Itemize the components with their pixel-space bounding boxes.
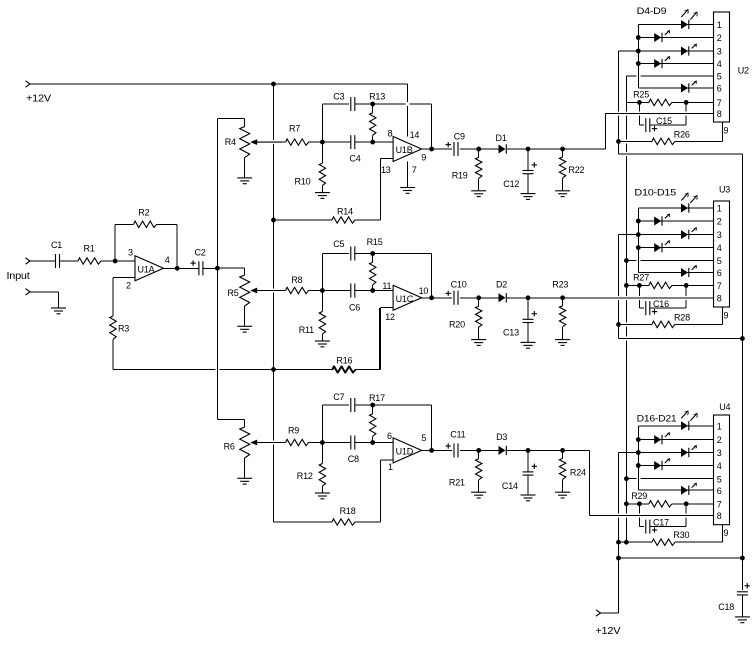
svg-text:R24: R24 xyxy=(570,467,586,477)
svg-text:R5: R5 xyxy=(227,288,238,298)
svg-text:C2: C2 xyxy=(195,248,206,258)
svg-text:8: 8 xyxy=(717,109,722,119)
svg-text:3: 3 xyxy=(128,248,133,258)
svg-text:5: 5 xyxy=(421,433,426,443)
svg-text:U1B: U1B xyxy=(396,145,413,155)
svg-text:R20: R20 xyxy=(449,320,465,330)
svg-text:6: 6 xyxy=(387,431,392,441)
svg-text:U4: U4 xyxy=(719,402,730,412)
svg-text:D10-D15: D10-D15 xyxy=(634,187,676,197)
svg-text:D2: D2 xyxy=(496,280,507,290)
svg-text:8: 8 xyxy=(717,293,722,303)
svg-text:11: 11 xyxy=(382,281,391,291)
svg-text:C15: C15 xyxy=(656,116,672,126)
svg-text:R25: R25 xyxy=(633,89,649,99)
svg-text:+12V: +12V xyxy=(26,94,52,105)
svg-text:6: 6 xyxy=(717,268,722,278)
svg-text:4: 4 xyxy=(165,255,170,265)
svg-text:14: 14 xyxy=(410,130,420,140)
svg-text:2: 2 xyxy=(126,281,131,291)
svg-text:C11: C11 xyxy=(450,430,465,440)
svg-text:R29: R29 xyxy=(631,491,647,501)
svg-text:+12V: +12V xyxy=(595,626,621,637)
svg-text:C8: C8 xyxy=(348,454,359,464)
svg-text:9: 9 xyxy=(724,126,729,136)
svg-text:U1D: U1D xyxy=(396,447,414,457)
svg-text:R19: R19 xyxy=(452,171,468,181)
svg-text:R7: R7 xyxy=(289,124,300,134)
svg-text:8: 8 xyxy=(388,129,393,139)
svg-text:R18: R18 xyxy=(340,506,356,516)
svg-text:R3: R3 xyxy=(118,324,129,334)
svg-text:R1: R1 xyxy=(84,244,95,254)
svg-text:C13: C13 xyxy=(503,328,519,338)
svg-text:C18: C18 xyxy=(718,602,734,612)
svg-text:7: 7 xyxy=(717,499,722,509)
svg-text:4: 4 xyxy=(717,461,722,471)
svg-text:R21: R21 xyxy=(449,478,465,488)
svg-text:Input: Input xyxy=(7,271,30,282)
svg-text:R11: R11 xyxy=(299,325,314,335)
svg-text:C17: C17 xyxy=(653,517,669,527)
svg-text:1: 1 xyxy=(388,462,393,472)
svg-text:C4: C4 xyxy=(349,154,360,164)
svg-text:5: 5 xyxy=(717,256,722,266)
svg-text:D1: D1 xyxy=(496,133,507,143)
svg-text:R9: R9 xyxy=(288,426,299,436)
svg-text:2: 2 xyxy=(717,435,722,445)
svg-text:4: 4 xyxy=(717,59,722,69)
svg-text:C12: C12 xyxy=(503,179,519,189)
svg-text:7: 7 xyxy=(412,165,417,175)
svg-text:U1C: U1C xyxy=(396,294,414,304)
svg-text:D3: D3 xyxy=(496,432,507,442)
svg-text:3: 3 xyxy=(717,448,722,458)
svg-text:10: 10 xyxy=(419,286,429,296)
svg-text:R22: R22 xyxy=(568,165,584,175)
svg-text:6: 6 xyxy=(717,486,722,496)
svg-text:8: 8 xyxy=(717,511,722,521)
svg-text:12: 12 xyxy=(385,312,395,322)
svg-text:5: 5 xyxy=(717,72,722,82)
svg-text:C5: C5 xyxy=(333,239,344,249)
svg-text:6: 6 xyxy=(717,84,722,94)
svg-text:C1: C1 xyxy=(51,240,62,250)
svg-text:3: 3 xyxy=(717,47,722,57)
svg-text:5: 5 xyxy=(717,474,722,484)
svg-text:R26: R26 xyxy=(674,129,690,139)
svg-text:U2: U2 xyxy=(738,66,749,76)
svg-text:9: 9 xyxy=(724,311,729,321)
svg-text:7: 7 xyxy=(717,281,722,291)
svg-text:C10: C10 xyxy=(451,280,467,290)
svg-text:C9: C9 xyxy=(454,132,465,142)
svg-text:C3: C3 xyxy=(333,92,344,102)
svg-text:R30: R30 xyxy=(673,530,689,540)
svg-text:D16-D21: D16-D21 xyxy=(637,413,677,423)
svg-text:1: 1 xyxy=(717,20,722,30)
svg-text:1: 1 xyxy=(717,421,722,431)
svg-text:R17: R17 xyxy=(369,393,385,403)
svg-text:4: 4 xyxy=(717,243,722,253)
svg-text:2: 2 xyxy=(717,217,722,227)
svg-text:3: 3 xyxy=(717,230,722,240)
svg-text:R14: R14 xyxy=(337,207,353,217)
svg-text:9: 9 xyxy=(421,153,426,163)
svg-text:R13: R13 xyxy=(369,92,385,102)
svg-text:R15: R15 xyxy=(367,237,383,247)
svg-text:9: 9 xyxy=(724,528,729,538)
svg-text:R28: R28 xyxy=(674,313,690,323)
svg-text:D4-D9: D4-D9 xyxy=(637,6,667,16)
svg-text:1: 1 xyxy=(717,204,722,214)
svg-text:U1A: U1A xyxy=(138,265,155,275)
svg-text:C14: C14 xyxy=(502,481,518,491)
svg-text:2: 2 xyxy=(717,33,722,43)
svg-text:R8: R8 xyxy=(291,275,302,285)
svg-text:R12: R12 xyxy=(297,471,313,481)
svg-text:R2: R2 xyxy=(138,208,149,218)
svg-text:U3: U3 xyxy=(719,185,730,195)
svg-text:R16: R16 xyxy=(336,356,352,366)
svg-text:R4: R4 xyxy=(225,137,236,147)
svg-text:C7: C7 xyxy=(333,392,344,402)
svg-text:C6: C6 xyxy=(349,303,360,313)
svg-text:R10: R10 xyxy=(295,177,311,187)
svg-text:C16: C16 xyxy=(653,299,669,309)
svg-text:13: 13 xyxy=(381,165,391,175)
svg-text:R27: R27 xyxy=(633,272,649,282)
svg-text:R23: R23 xyxy=(552,280,568,290)
svg-text:R6: R6 xyxy=(224,442,235,452)
svg-text:7: 7 xyxy=(717,98,722,108)
